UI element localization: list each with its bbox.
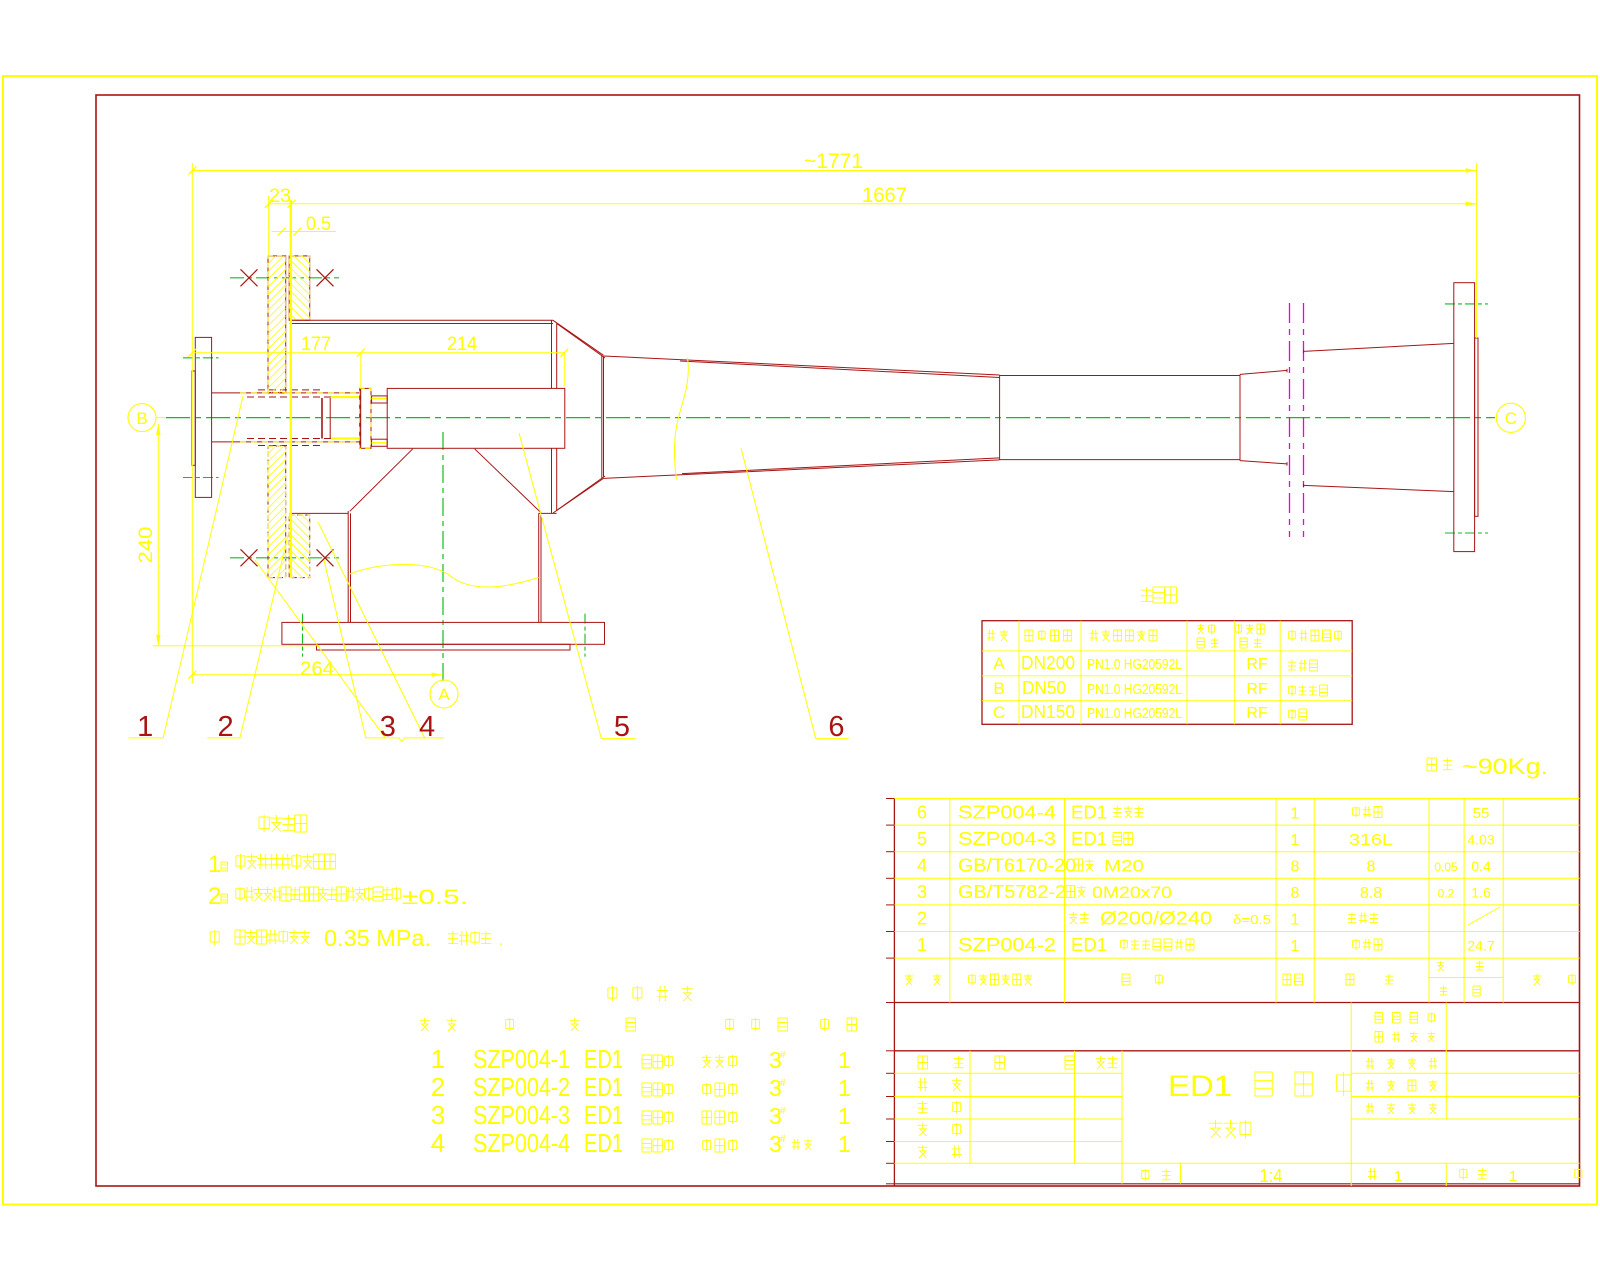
svg-text:8.8: 8.8 [1360,885,1382,902]
svg-text:~1771: ~1771 [804,150,863,173]
extension line flange C face [1476,163,1478,338]
centerline vertical suction axis [442,432,444,684]
svg-text:B: B [993,679,1004,698]
nozzle table title [1141,587,1177,603]
svg-text:1: 1 [1291,806,1300,823]
svg-text:240: 240 [136,527,157,564]
svg-text:1:4: 1:4 [1260,1166,1283,1186]
svg-text:SZP004-2: SZP004-2 [958,935,1056,955]
suction chamber left wall [347,511,349,622]
dimension 23 [288,200,296,208]
svg-text:1: 1 [137,711,153,743]
svg-text:0M20x70: 0M20x70 [1092,883,1172,902]
centerline main axis [166,417,1495,419]
svg-text:PN1.0 HG20592L: PN1.0 HG20592L [1087,681,1182,698]
svg-text:SZP004-3: SZP004-3 [958,829,1056,849]
support plate upper left [268,256,286,393]
svg-text:Ø200/Ø240: Ø200/Ø240 [1100,909,1212,929]
bolt centerline upper plate [230,277,339,279]
svg-text:2: 2 [208,883,221,910]
nozzle spacer [372,396,388,403]
flange B bolt marks [183,357,219,359]
dimension 1667 [269,203,1477,205]
svg-text:0.5: 0.5 [306,214,331,235]
scale row [1142,1169,1171,1181]
flange A (suction inlet DN200) [282,622,605,644]
balloon 6 leader [741,448,816,739]
pipe union coupling [321,398,323,439]
diffuser cone end (part 6) [1304,343,1454,351]
svg-text:#: # [780,1106,786,1117]
svg-text:#: # [780,1050,786,1061]
break lines (pipe break) [1289,303,1291,537]
svg-text:4: 4 [917,856,927,876]
svg-text:RF: RF [1246,656,1268,673]
diffuser cone start [1240,370,1287,374]
svg-text:PN1.0 HG20592L: PN1.0 HG20592L [1087,705,1182,722]
svg-text:~90Kg.: ~90Kg. [1462,754,1548,779]
BOM table left border [893,799,895,1187]
svg-text:ED1: ED1 [584,1100,623,1130]
svg-text:1: 1 [1291,912,1300,929]
svg-text:ED1: ED1 [584,1072,623,1102]
svg-text:1: 1 [1394,1168,1402,1185]
note: operating pressure [210,930,219,945]
BOM table top [894,798,1579,800]
nozzle table frame [982,621,1352,725]
title block bottom line [894,1183,1579,1185]
svg-text:0.2: 0.2 [1438,887,1455,901]
flange C (outlet DN150) [1454,283,1475,552]
svg-text:1: 1 [838,1075,851,1101]
BOM header bottom [894,1002,1579,1004]
svg-text:2: 2 [431,1072,445,1102]
svg-text:6: 6 [828,711,844,743]
dimension 240 (vertical) [157,424,159,646]
title block horizontals [894,1072,1122,1074]
svg-text:SZP004-1: SZP004-1 [473,1044,570,1074]
svg-text:8: 8 [1291,859,1300,876]
drawing border frame [96,95,1580,1186]
svg-text:177: 177 [301,334,331,355]
svg-text:23: 23 [269,186,291,207]
svg-text:4: 4 [419,711,435,743]
svg-text:3: 3 [917,882,927,902]
svg-text:6: 6 [917,803,927,823]
dimension 0.5 [272,231,336,233]
svg-text:A: A [993,654,1005,673]
svg-text:±0.5.: ±0.5. [402,886,468,909]
svg-text:4.03: 4.03 [1467,832,1494,848]
svg-text:5: 5 [614,711,630,743]
svg-text:5: 5 [917,829,927,849]
suction chamber right wall [538,513,540,622]
balloon 1 leader [163,396,243,738]
svg-text:RF: RF [1246,681,1268,698]
balloon 5 leader [519,433,601,739]
svg-text:.: . [499,932,503,948]
bolt centerline lower plate [230,557,339,559]
drawing catalog title [608,986,693,1001]
svg-text:214: 214 [447,334,477,355]
mixing inlet cone [604,356,1000,375]
svg-text:SZP004-3: SZP004-3 [473,1100,570,1130]
design project rows [1366,1058,1437,1069]
svg-text:2: 2 [218,711,234,743]
svg-text:ED1: ED1 [584,1044,623,1074]
svg-text:0.35 MPa.: 0.35 MPa. [324,925,431,951]
svg-text:A: A [438,685,450,704]
svg-text:1: 1 [917,935,927,955]
svg-text:C: C [993,703,1005,722]
svg-text:M20: M20 [1104,857,1144,876]
svg-text:1.6: 1.6 [1471,885,1491,901]
svg-text:SZP004-4: SZP004-4 [473,1128,570,1158]
svg-text:24.7: 24.7 [1467,938,1494,954]
row line ticks [886,798,894,800]
nozzle table header [987,630,1008,641]
net weight note [1427,758,1452,771]
flange C bolt marks [1445,303,1488,305]
balloon 2 leader [240,535,288,738]
svg-text:8: 8 [1291,885,1300,902]
nozzle flange disk [360,388,371,448]
svg-text:GB/T5782-2: GB/T5782-2 [958,882,1066,902]
dimension 264 [192,674,442,676]
svg-text:PN1.0 HG20592L: PN1.0 HG20592L [1087,656,1182,673]
svg-text:1: 1 [838,1047,851,1073]
svg-text:#: # [780,1078,786,1089]
svg-text:DN150: DN150 [1021,702,1075,722]
technical requirements title [259,815,307,832]
node C marker [1496,403,1525,432]
plate gap centerline (thick) [290,200,292,577]
svg-text:316L: 316L [1349,832,1393,849]
mixing throat tube [1000,375,1240,377]
svg-text:SZP004-2: SZP004-2 [473,1072,570,1102]
project name cell [1375,1013,1435,1024]
svg-text:δ=0.5: δ=0.5 [1233,912,1271,927]
node A marker [430,680,458,708]
chamber break wavy line [350,564,539,587]
svg-text:#: # [780,1134,786,1145]
nozzle barrel (part 5) [387,388,565,448]
svg-text:1: 1 [1291,938,1300,955]
svg-text:ED1: ED1 [1168,1070,1232,1103]
svg-text:SZP004-4: SZP004-4 [958,803,1056,823]
svg-text:1: 1 [838,1103,851,1129]
suction chamber funnel [350,449,413,512]
svg-text:GB/T6170-20: GB/T6170-20 [958,856,1076,876]
BOM header row [905,974,941,985]
svg-text:RF: RF [1246,705,1268,722]
svg-text:1667: 1667 [862,184,907,207]
svg-text:4: 4 [431,1128,445,1158]
extension line plate face [268,196,270,256]
steam inlet pipe [212,392,360,394]
svg-text:0.05: 0.05 [1434,860,1458,874]
node B marker [128,404,156,432]
signature rows [918,1056,963,1069]
support plate upper right [289,256,310,320]
svg-text:DN200: DN200 [1021,653,1075,673]
svg-text:B: B [136,409,147,428]
BOM column lines [949,799,951,1003]
steam chest box [290,319,554,321]
balloon 3/4 underline [366,738,444,742]
svg-text:0.4: 0.4 [1471,858,1491,874]
svg-text:55: 55 [1473,805,1490,822]
svg-text:2: 2 [917,909,927,929]
catalog header [420,1018,456,1031]
flange A bolt marks [302,614,304,657]
title block top [894,1050,1579,1052]
svg-text:1: 1 [208,851,221,878]
flange A extension line [153,645,320,647]
chest outlet cone [553,320,604,355]
svg-text:1: 1 [1291,832,1300,849]
balloon 3 leaders [324,560,366,738]
balloon 4 leader [318,522,425,738]
svg-text:3: 3 [380,711,396,743]
svg-text:ED1: ED1 [1071,829,1107,849]
svg-text:1: 1 [431,1044,445,1074]
svg-text:ED1: ED1 [1071,935,1107,955]
support plate lower left [268,446,286,578]
dimension ~1771 [192,170,1476,172]
svg-text:3: 3 [431,1100,445,1130]
extension line flange B face [191,163,193,683]
support plate lower right [289,515,310,578]
svg-text:C: C [1505,409,1517,428]
dimension 177 / 214 [192,352,564,354]
svg-text:8: 8 [1367,859,1376,876]
bolt cross marks M20 [241,269,258,286]
svg-text:1: 1 [838,1131,851,1157]
svg-text:1: 1 [1509,1168,1517,1185]
svg-text:ED1: ED1 [584,1128,623,1158]
svg-text:ED1: ED1 [1071,803,1107,823]
svg-text:DN50: DN50 [1022,678,1066,698]
flange B (steam inlet DN50) [195,337,211,497]
nozzle break wavy line [675,358,689,479]
title block verticals [1350,1003,1352,1187]
